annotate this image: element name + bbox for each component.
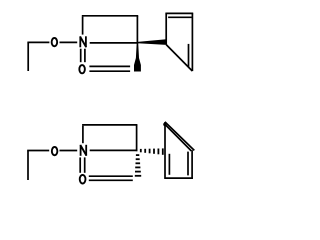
double bond C=O line 1	[89, 175, 133, 177]
phenyl-1 right edge	[191, 13, 193, 71]
phenyl-2 left edge	[164, 122, 166, 179]
ring left edge N-C4	[82, 17, 84, 35]
double bond N=O line 2	[84, 49, 86, 63]
bond CH3-CH2 (ethyl vertical)	[27, 151, 29, 181]
ring right edge C3-C2	[136, 16, 138, 44]
double bond C=O line 2	[89, 179, 133, 181]
atom label O (ethoxy) molecule 2	[52, 147, 58, 155]
double bond N=O line 1	[79, 157, 81, 172]
phenyl-2 inner left double line	[168, 154, 170, 175]
bond O-N	[60, 41, 78, 43]
wedge bond C2-phenyl (bold, right) molecule 1	[138, 39, 167, 45]
hashed wedge C2-phenyl (right) molecule 2: 6 dashes	[140, 149, 142, 152]
double bond C=O line 1	[89, 65, 130, 67]
phenyl-1 left edge	[165, 13, 167, 44]
ring bottom edge N-C2	[90, 149, 138, 151]
double bond N=O line 2	[84, 157, 86, 172]
atom label O (ethoxy) molecule 1	[52, 38, 58, 46]
ring right edge C3-C2	[136, 125, 138, 151]
ring bottom edge N-C2	[90, 42, 139, 44]
ring left edge N-C4	[82, 126, 84, 144]
phenyl-2 bottom edge	[165, 177, 193, 179]
bond CH2-O (ethyl horizontal)	[27, 150, 49, 152]
phenyl-1 top outer edge	[165, 12, 193, 14]
phenyl-1 inner right double line	[188, 44, 190, 67]
bond CH2-O (ethyl horizontal)	[27, 41, 49, 43]
atom label N molecule 1	[80, 36, 86, 47]
atom label O (carbonyl) molecule 1	[79, 65, 85, 73]
phenyl-1 diagonal edge	[166, 45, 192, 71]
phenyl-1 top inner double line	[168, 16, 192, 18]
hashed wedge C2-CHO (down) molecule 2: 6 dashes	[136, 154, 139, 156]
phenyl-2 apex junction knot	[163, 123, 166, 126]
phenyl-2 inner right double line	[187, 152, 189, 176]
double bond C=O line 2	[89, 70, 130, 72]
atom label O (carbonyl) molecule 2	[80, 175, 86, 184]
phenyl-2 outer diagonal edge	[165, 122, 194, 151]
atom label N molecule 2	[80, 145, 86, 156]
wedge bond C2-CHO (bold, down) molecule 1	[134, 43, 141, 72]
phenyl-2 right edge	[191, 150, 193, 179]
ring top edge C4-C3	[82, 15, 138, 17]
bond CH3-CH2 (ethyl vertical)	[27, 42, 29, 71]
bond O-N	[60, 150, 78, 152]
ring top edge C4-C3	[82, 124, 137, 126]
double bond N=O line 1	[80, 49, 82, 63]
phenyl-2 inner diagonal double line	[166, 125, 192, 151]
